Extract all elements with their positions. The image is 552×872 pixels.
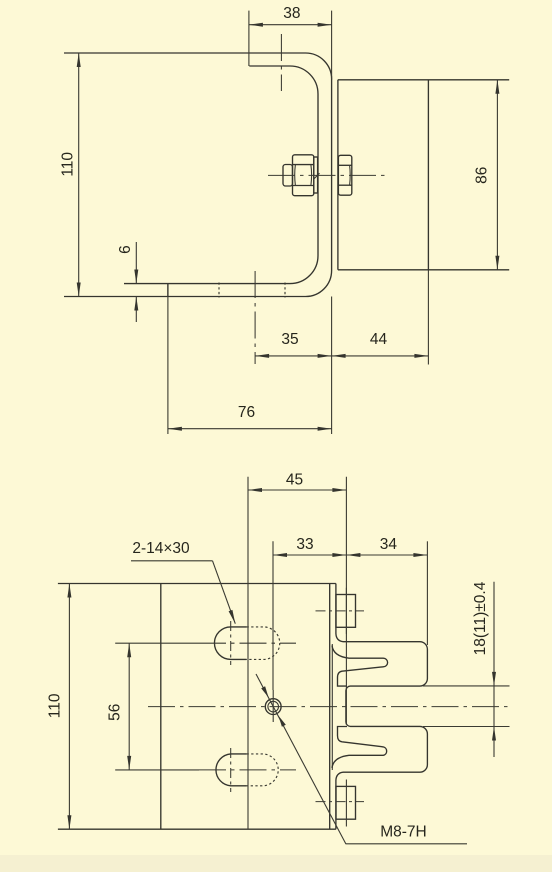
hidden slot edges in bottom flange <box>218 283 220 298</box>
bracket outer contour (side view) <box>64 53 332 297</box>
svg-text:38: 38 <box>283 5 300 22</box>
lower slot 14x30 <box>199 748 296 792</box>
rail bolt upper <box>316 588 365 634</box>
svg-text:35: 35 <box>281 331 298 348</box>
dimension 33 <box>273 536 346 690</box>
dimension 6 <box>117 242 138 322</box>
svg-text:44: 44 <box>370 331 388 348</box>
bottom flange free edge <box>167 284 169 297</box>
dimension 45 <box>248 472 346 830</box>
label M8-7H with leader <box>256 674 467 844</box>
rail side rectangle <box>338 80 509 270</box>
dimension 56 <box>107 643 200 770</box>
thread mark <box>314 173 319 178</box>
svg-text:45: 45 <box>286 472 303 489</box>
top flange free edge <box>248 11 250 66</box>
rail fins (tongues) <box>332 646 388 687</box>
upper slot 14x30 <box>199 621 296 665</box>
dimension 76 <box>168 284 332 434</box>
dimension 110 (bottom view) <box>47 584 72 830</box>
rail wall face <box>336 584 343 642</box>
svg-text:110: 110 <box>47 693 64 718</box>
svg-text:110: 110 <box>60 152 77 177</box>
dimension 18(11)+-0.4 <box>423 581 510 757</box>
fin stem line <box>331 644 333 770</box>
slot centerline projection <box>280 34 282 91</box>
dimension 38 <box>249 5 332 80</box>
svg-text:34: 34 <box>380 536 398 553</box>
svg-text:2-14×30: 2-14×30 <box>132 540 190 557</box>
bolt centerline <box>268 174 389 176</box>
dimension 35 <box>255 271 332 364</box>
rail profile blocks and center slot <box>343 642 427 773</box>
dimension 86 <box>474 80 500 270</box>
bracket inner contour <box>124 66 318 284</box>
bolt hex head <box>293 155 314 196</box>
washer <box>314 157 318 193</box>
svg-text:76: 76 <box>238 404 255 421</box>
svg-text:33: 33 <box>296 536 313 553</box>
svg-text:6: 6 <box>117 245 134 254</box>
dimension 34 <box>346 536 427 645</box>
main horizontal centerline <box>148 706 508 708</box>
dimension 110 (top view) <box>60 53 81 297</box>
svg-text:86: 86 <box>474 167 491 184</box>
M8 tapped hole <box>265 690 281 722</box>
plate outline (bottom view) <box>58 584 336 830</box>
svg-text:56: 56 <box>107 704 124 721</box>
rail bolt lower <box>316 780 365 827</box>
dimension 44 <box>332 270 429 365</box>
bolt head end <box>283 165 293 187</box>
nut on rail side <box>338 155 351 195</box>
svg-text:M8-7H: M8-7H <box>380 824 427 841</box>
label 2-14x30 with leader <box>131 540 235 624</box>
svg-text:18(11)±0.4: 18(11)±0.4 <box>472 581 489 655</box>
